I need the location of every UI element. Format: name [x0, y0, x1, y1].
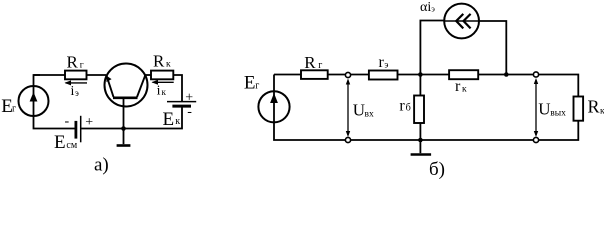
- svg-text:г: г: [318, 60, 322, 71]
- svg-text:б: б: [406, 103, 411, 114]
- label Eк (circuit a): [163, 109, 181, 130]
- resistor r_б (circuit б): [414, 96, 424, 124]
- svg-text:э: э: [384, 61, 388, 71]
- wire bridge right down to node 2 (circuit б): [479, 21, 506, 75]
- label Rк (circuit a): [153, 52, 171, 71]
- label Eсм (circuit a): [54, 132, 78, 153]
- svg-text:R: R: [153, 52, 165, 71]
- svg-text:г: г: [80, 61, 84, 71]
- current arrow iк (circuit a): [152, 80, 174, 85]
- svg-text:αi: αi: [420, 0, 431, 15]
- svg-text:E: E: [244, 73, 256, 94]
- label Rг (circuit б): [304, 53, 322, 72]
- label iэ (circuit a): [71, 84, 80, 99]
- terminal Uвых bottom (circuit б): [533, 137, 538, 142]
- svg-text:-: -: [65, 114, 70, 129]
- label iк (circuit a): [157, 84, 167, 99]
- svg-text:+: +: [185, 90, 193, 105]
- terminal Uвых top (circuit б): [533, 72, 538, 77]
- label rэ (circuit б): [379, 54, 389, 71]
- emitter arrowhead: [106, 76, 111, 82]
- wire base lead (circuit a): [123, 98, 125, 129]
- label + (Eк): [185, 90, 193, 105]
- terminal Uвх top (circuit б): [345, 72, 350, 77]
- resistor r_к (circuit б): [449, 70, 478, 79]
- base bar: [113, 97, 138, 100]
- label - (Eк): [187, 105, 192, 120]
- label Rк load (circuit б): [588, 97, 604, 117]
- svg-text:U: U: [353, 101, 365, 120]
- node 2 junction (circuit б): [504, 72, 509, 77]
- label б): [429, 159, 445, 180]
- wire node 1 up to bridge (circuit б): [420, 21, 444, 75]
- wire Eг up to top-left corner (circuit б): [273, 75, 275, 92]
- svg-text:i: i: [157, 84, 161, 99]
- svg-text:E: E: [54, 132, 66, 153]
- emitter slant: [107, 76, 114, 97]
- transistor VT (circuit a): [105, 64, 148, 107]
- svg-text:к: к: [166, 60, 171, 70]
- resistor R_г (circuit б): [301, 70, 328, 79]
- svg-text:вх: вх: [365, 110, 374, 120]
- svg-text:E: E: [163, 109, 175, 130]
- wire top-left horizontal (Eг branch to Rг) circuit a: [34, 74, 66, 76]
- source Eг (circuit б): [258, 91, 289, 122]
- label - (Eсм): [65, 114, 70, 129]
- resistor R_г (circuit a): [65, 71, 87, 80]
- battery Eк (circuit a): [167, 102, 196, 107]
- wire rк to Uвых terminal and right corner (circuit б): [478, 75, 578, 97]
- label + (Eсм): [85, 115, 93, 130]
- svg-text:к: к: [462, 85, 467, 95]
- label a): [94, 154, 109, 175]
- wire top-left (Eг branch to Rг) circuit б: [274, 74, 301, 76]
- wire Rг to transistor emitter (circuit a): [87, 74, 107, 76]
- svg-text:+: +: [85, 115, 93, 130]
- svg-text:см: см: [66, 140, 77, 151]
- terminal Uвх bottom (circuit б): [345, 137, 350, 142]
- wire bottom-left rail to Eг (circuit a): [34, 116, 76, 129]
- svg-text:а): а): [94, 154, 109, 175]
- voltage arrow Uвх (circuit б): [346, 79, 350, 138]
- svg-text:R: R: [588, 97, 600, 117]
- svg-text:г: г: [12, 104, 16, 115]
- svg-text:э: э: [431, 3, 435, 13]
- wire Eк to bottom-right corner and bottom rail (circuit a): [81, 108, 182, 129]
- source Eг (circuit a): [19, 86, 49, 116]
- svg-text:к: к: [162, 87, 167, 97]
- wire Rк load bottom to bottom rail (circuit б): [274, 121, 578, 140]
- svg-text:к: к: [600, 107, 604, 117]
- svg-text:R: R: [304, 53, 316, 72]
- svg-text:r: r: [455, 78, 461, 95]
- label Rг (circuit a): [67, 53, 84, 72]
- wire Rк to top-right corner, down to Eк (circuit a): [173, 75, 182, 101]
- current arrow iэ (circuit a): [65, 80, 88, 85]
- wire transistor collector to Rк (circuit a): [145, 74, 151, 76]
- ground (circuit a): [117, 129, 131, 146]
- resistor Rк load (circuit б): [574, 97, 584, 121]
- wire Rг to Uвх node (circuit б): [328, 74, 369, 76]
- svg-text:r: r: [399, 98, 405, 115]
- label Eг (circuit б): [244, 73, 260, 94]
- label Eг (circuit a): [1, 96, 16, 117]
- svg-text:i: i: [71, 84, 75, 99]
- ground (circuit б): [411, 140, 432, 155]
- svg-text:-: -: [187, 105, 192, 120]
- voltage arrow Uвых (circuit б): [534, 78, 538, 137]
- svg-text:г: г: [255, 81, 259, 92]
- svg-text:к: к: [175, 116, 180, 127]
- current source αiэ (circuit б): [444, 4, 479, 39]
- resistor R_к (circuit a): [151, 71, 173, 80]
- node 1 junction (circuit б): [418, 72, 423, 77]
- junction base-bottom rail (circuit a): [121, 126, 126, 131]
- collector slant: [137, 75, 145, 97]
- wire node 1 down to rб (circuit б): [419, 75, 421, 96]
- wire rб bottom to bottom rail (circuit б): [419, 123, 421, 140]
- wire Eг to top-left corner (circuit a): [34, 75, 41, 86]
- label Uвых (circuit б): [538, 100, 566, 119]
- wire rэ to node 1 (circuit б): [398, 74, 450, 76]
- label rб (circuit б): [399, 98, 410, 115]
- battery Eсм (circuit a): [76, 116, 81, 143]
- resistor r_э (circuit б): [369, 71, 398, 80]
- svg-text:U: U: [538, 100, 550, 119]
- svg-text:э: э: [75, 88, 79, 98]
- svg-text:R: R: [67, 53, 79, 72]
- label Uвх (circuit б): [353, 101, 374, 120]
- label rк (circuit б): [455, 78, 467, 95]
- label αiэ (circuit б): [420, 0, 435, 15]
- svg-text:б): б): [429, 159, 445, 179]
- junction rб-bottom rail (circuit б): [418, 138, 423, 143]
- svg-text:вых: вых: [550, 109, 566, 119]
